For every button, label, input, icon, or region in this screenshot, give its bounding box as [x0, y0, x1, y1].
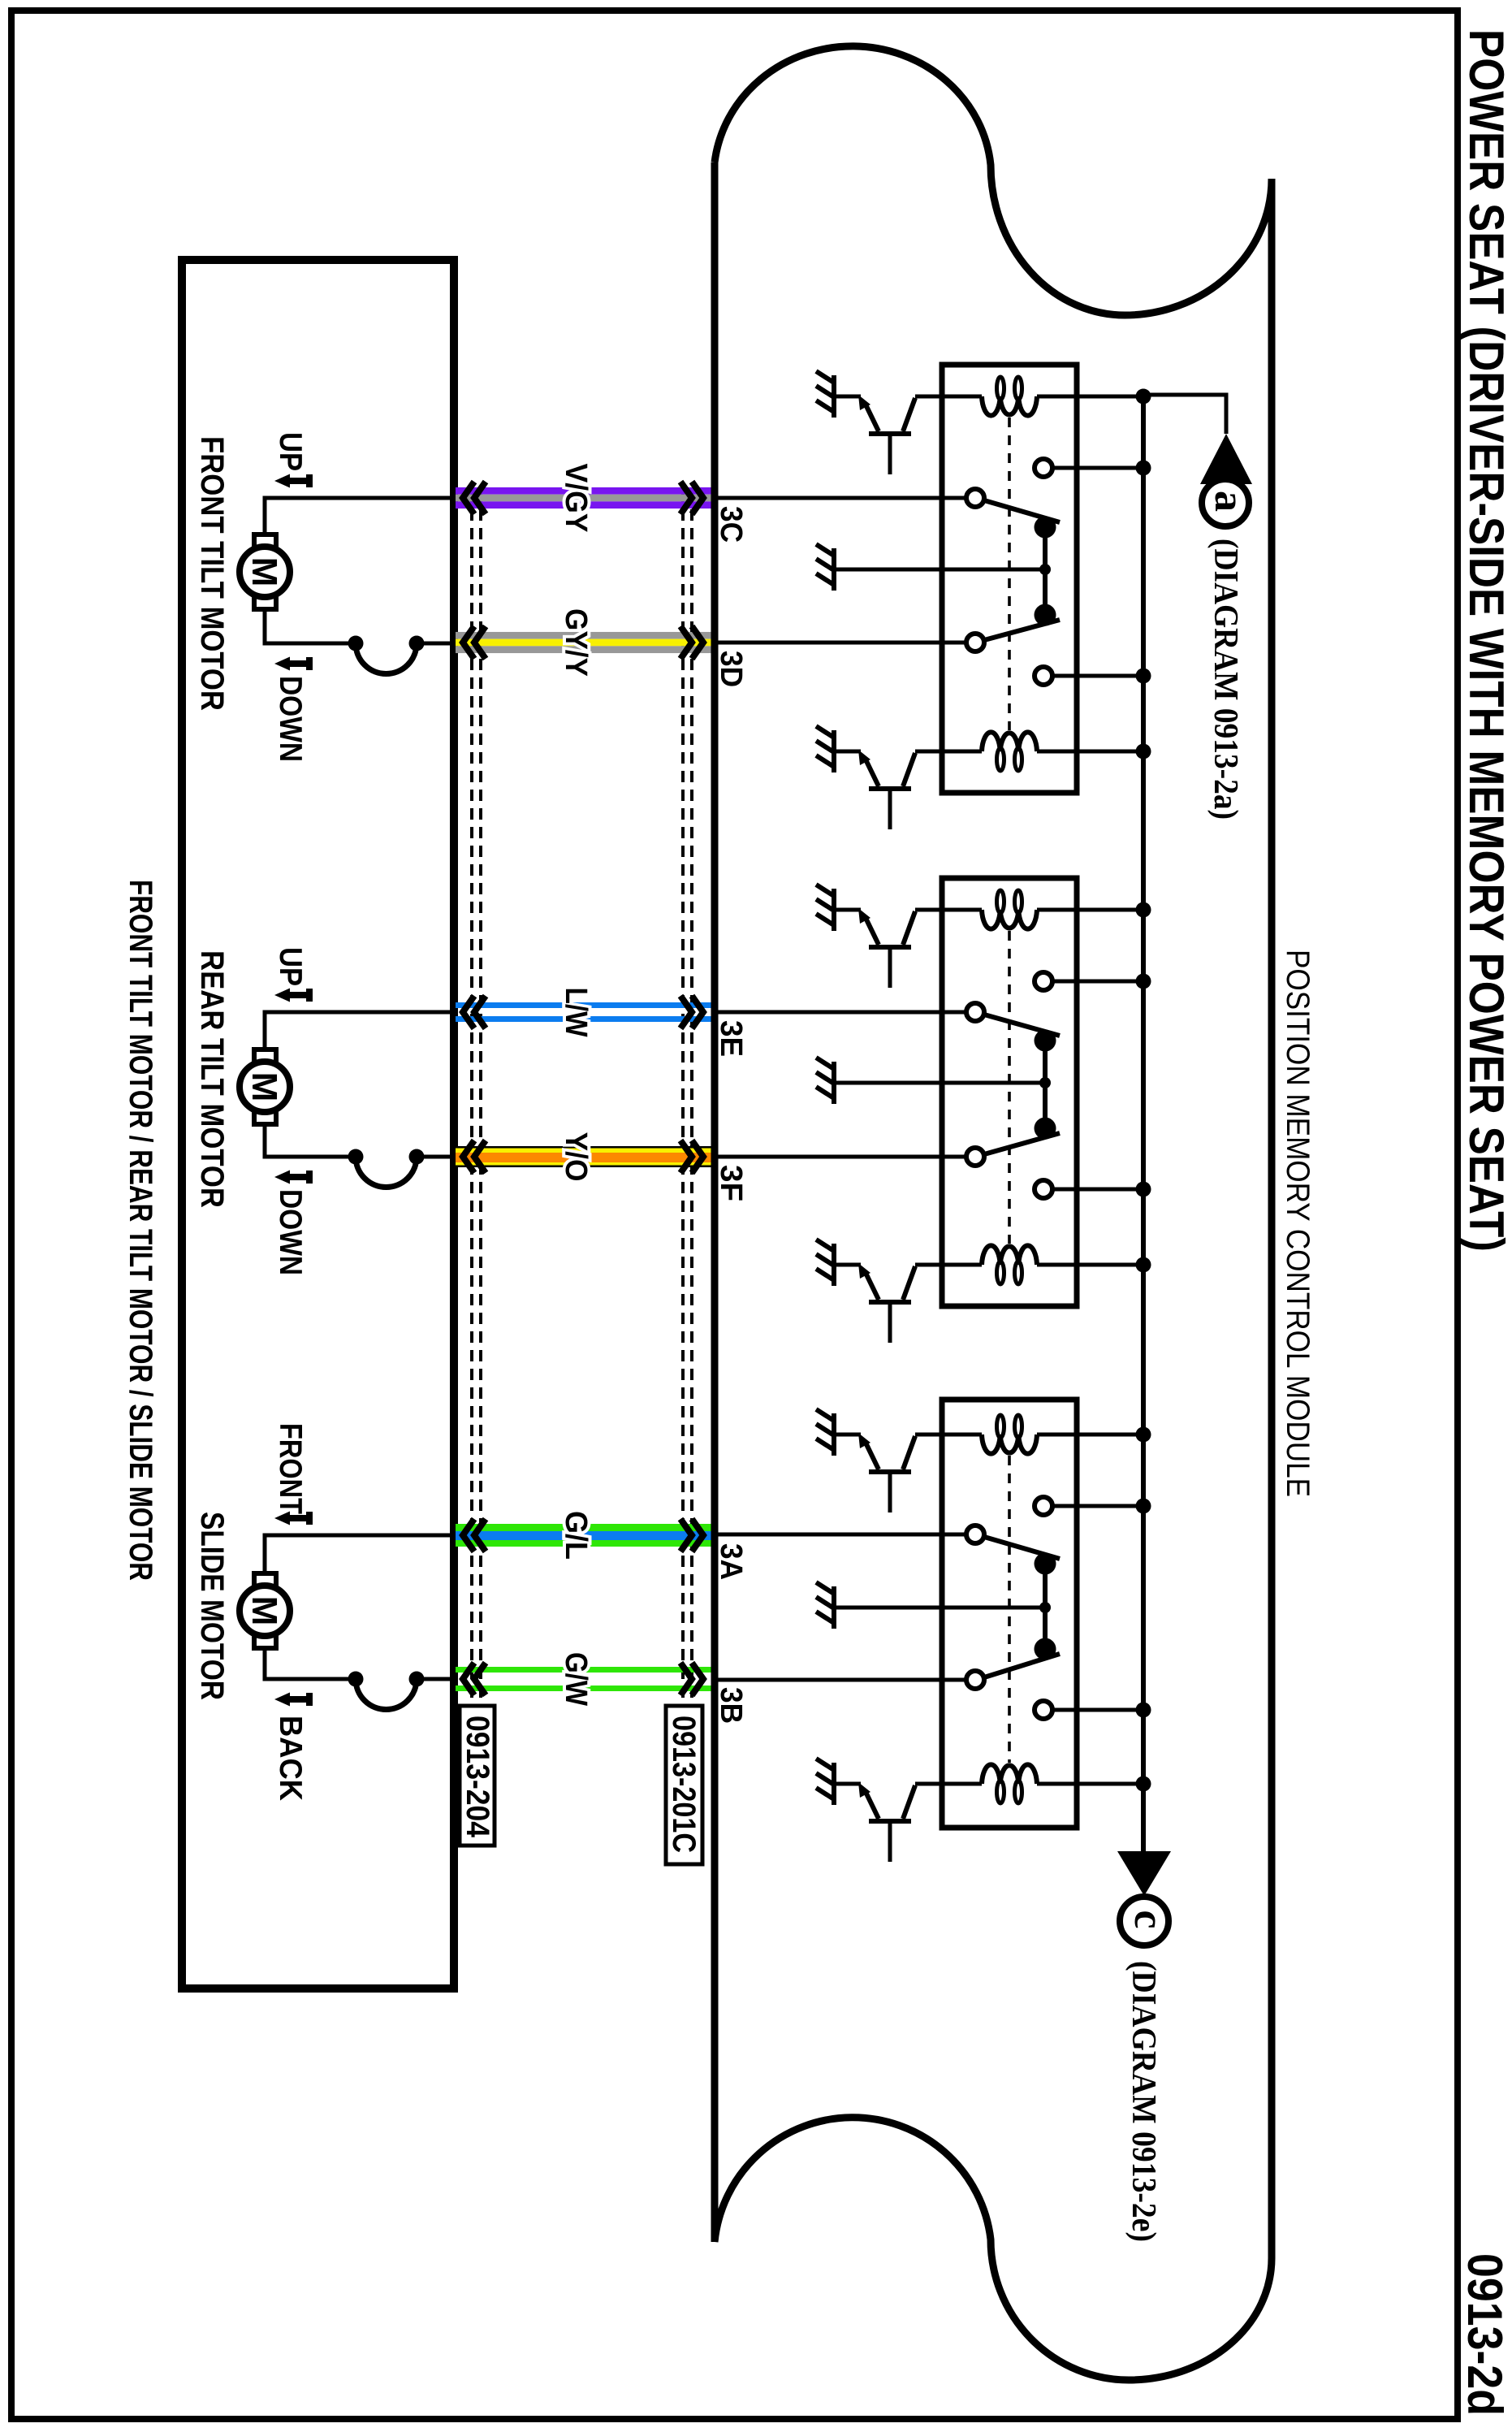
wire collector to coil K1 bottom [915, 750, 982, 754]
motor M3 upper direction arrow [289, 1515, 306, 1521]
junction dot M3 left [348, 1672, 364, 1687]
wire module pin to K2 common 1 [715, 1010, 966, 1015]
motor M1 upper terminal [254, 534, 276, 547]
relay K3 upper NO contact [1035, 1497, 1052, 1515]
connector 0913-201C dashed line 2 [690, 491, 693, 1706]
relay K1 NC contact 2 [1035, 604, 1056, 626]
relay K3 blade 2 [984, 1654, 1060, 1677]
svg-text:M: M [244, 1072, 284, 1102]
relay K1 upper NO contact [1035, 459, 1052, 477]
junction dot bus upper K1 [1136, 461, 1151, 476]
motor assembly box [182, 260, 454, 1988]
junction dot bus upper K2 [1136, 974, 1151, 989]
relay coil K3 lower [982, 1764, 1037, 1784]
wire loop to box edge M2 [417, 1155, 454, 1159]
relay K2 common pole 2 [966, 1148, 984, 1166]
ground K3 center tap [832, 1586, 836, 1629]
wire motor M3 to upper feed [265, 1535, 451, 1575]
motor M2 lower terminal [254, 1111, 276, 1124]
wire K1 upper NO to bus [1052, 466, 1143, 470]
relay K2 common pole 1 [966, 1003, 984, 1021]
relay K3 common pole 1 [966, 1525, 984, 1543]
relay K1 blade 1 [984, 500, 1060, 522]
motor M3 body [240, 1586, 290, 1636]
svg-text:M: M [244, 557, 284, 587]
wire motor M1 lower to loop [265, 608, 356, 643]
relay K2 NC contact 1 [1035, 1030, 1056, 1052]
wire collector to coil K3 top [915, 1433, 982, 1437]
wire coil K3 bottom to bus [1037, 1782, 1143, 1786]
svg-text:FRONT TILT MOTOR: FRONT TILT MOTOR [194, 436, 230, 711]
wire motor M1 to upper feed [265, 498, 451, 536]
relay K2 blade 1 [984, 1015, 1060, 1036]
svg-text:3B: 3B [714, 1687, 748, 1724]
module bottom torn edge [715, 2118, 1272, 2380]
relay K1 NC contact 1 [1035, 517, 1056, 539]
module top torn edge [715, 46, 1272, 315]
wire ground to NC link K2 [834, 1081, 1045, 1085]
relay K2 blade 2 [984, 1133, 1060, 1154]
arrow a head [1200, 434, 1252, 484]
connector label box 0913-201C [666, 1706, 702, 1864]
motor M2 lower direction arrow [289, 1174, 306, 1180]
junction dot M2 right [409, 1149, 425, 1165]
svg-text:L/W: L/W [559, 988, 593, 1037]
svg-text:c: c [1125, 1910, 1172, 1928]
wire motor M2 to upper feed [265, 1012, 451, 1051]
relay K3 NC contact 1 [1035, 1553, 1056, 1575]
svg-text:UP: UP [273, 947, 308, 986]
svg-text:POSITION MEMORY CONTROL MODULE: POSITION MEMORY CONTROL MODULE [1280, 950, 1315, 1497]
junction dot bus / coil K3 bottom [1136, 1776, 1151, 1792]
relay K2 NC contact 2 [1035, 1118, 1056, 1140]
ground K2 center tap [832, 1062, 836, 1104]
ground K1 center tap [832, 548, 836, 591]
relay K2 upper NO contact [1035, 972, 1052, 990]
splice loop arc M3 [356, 1679, 417, 1710]
svg-text:DOWN: DOWN [273, 676, 308, 762]
ground K1 upper transistor emitter [832, 375, 836, 418]
connector 0913-201C dashed line 1 [681, 491, 685, 1706]
wire coil K2 top to bus [1037, 908, 1143, 912]
relay K1 blade 2 [984, 620, 1060, 640]
transistor Q2b [834, 1263, 861, 1267]
svg-text:SLIDE MOTOR: SLIDE MOTOR [194, 1512, 230, 1700]
relay K1 common pole 2 [966, 634, 984, 651]
svg-text:0913-201C: 0913-201C [666, 1716, 702, 1853]
junction dot NC link K1 [1039, 564, 1051, 575]
junction dot M2 left [348, 1149, 364, 1165]
svg-text:3F: 3F [714, 1165, 748, 1201]
relay K2 actuation dashed line [1008, 931, 1011, 1244]
svg-text:UP: UP [273, 432, 308, 471]
relay K2 lower NO contact [1035, 1180, 1052, 1198]
junction dot bus lower K1 [1136, 669, 1151, 684]
relay K3 lower NO contact [1035, 1701, 1052, 1719]
circle c [1120, 1897, 1169, 1945]
ground K2 upper transistor emitter [832, 889, 836, 931]
motor M2 upper direction arrow [289, 992, 306, 998]
circle a [1202, 479, 1249, 526]
wire module pin to K3 common 2 [715, 1678, 966, 1682]
ground K3 upper transistor emitter [832, 1413, 836, 1456]
relay coil K2 lower [982, 1245, 1037, 1265]
wire collector to coil K3 bottom [915, 1782, 982, 1786]
wire K2 lower NO to bus [1052, 1188, 1143, 1192]
wire module pin to K2 common 2 [715, 1155, 966, 1159]
wire coil K1 top to bus [1037, 395, 1143, 399]
junction dot bus / coil K1 bottom [1136, 744, 1151, 759]
svg-text:Y/O: Y/O [559, 1132, 593, 1182]
relay K3 common pole 2 [966, 1671, 984, 1689]
ground K1 lower transistor emitter [832, 730, 836, 772]
svg-text:FRONT TILT MOTOR / REAR TILT M: FRONT TILT MOTOR / REAR TILT MOTOR / SLI… [123, 880, 158, 1581]
transistor Q1a [834, 395, 861, 399]
svg-text:a: a [1206, 491, 1252, 512]
junction dot NC link K2 [1039, 1077, 1051, 1088]
transistor Q1b [834, 750, 861, 754]
junction dot M1 left [348, 636, 364, 651]
svg-text:BACK: BACK [273, 1716, 308, 1801]
svg-text:3D: 3D [714, 651, 748, 687]
wire loop to box edge M1 [417, 642, 454, 646]
relay coil K3 upper [982, 1435, 1037, 1454]
svg-text:V/GY: V/GY [559, 464, 593, 533]
wire motor M2 lower to loop [265, 1123, 356, 1157]
wire NC link K3 [1043, 1564, 1048, 1649]
motor M3 upper terminal [254, 1573, 276, 1586]
module internal bus wire [1141, 395, 1146, 1851]
svg-text:M: M [244, 1596, 284, 1626]
junction dot bus / coil K3 top [1136, 1427, 1151, 1443]
svg-text:POWER SEAT (DRIVER-SIDE WITH M: POWER SEAT (DRIVER-SIDE WITH MEMORY POWE… [1459, 29, 1512, 1252]
wire ground to NC link K1 [834, 568, 1045, 572]
motor M1 body [240, 547, 290, 597]
wire module pin to K3 common 1 [715, 1533, 966, 1537]
ground K2 lower transistor emitter [832, 1244, 836, 1286]
ground K3 lower transistor emitter [832, 1763, 836, 1805]
svg-text:FRONT: FRONT [273, 1423, 308, 1514]
svg-text:G/L: G/L [559, 1511, 593, 1560]
relay K1 box [942, 365, 1077, 793]
junction dot bus / coil K1 top [1136, 389, 1151, 405]
relay K1 lower NO contact [1035, 667, 1052, 685]
module left edge [711, 162, 719, 2242]
wire ground to NC link K3 [834, 1606, 1045, 1610]
wire K3 lower NO to bus [1052, 1708, 1143, 1712]
splice loop arc M1 [356, 643, 417, 674]
wire coil K3 top to bus [1037, 1433, 1143, 1437]
junction dot bus / coil K2 bottom [1136, 1257, 1151, 1273]
motor M1 upper direction arrow [289, 478, 306, 484]
motor M3 lower terminal [254, 1635, 276, 1648]
motor M2 upper terminal [254, 1049, 276, 1062]
wire bus to arrow a [1143, 395, 1226, 434]
junction dot bus upper K3 [1136, 1499, 1151, 1514]
junction dot M1 right [409, 636, 425, 651]
junction dot NC link K3 [1039, 1602, 1051, 1613]
relay K3 NC contact 2 [1035, 1638, 1056, 1660]
motor M1 lower direction arrow [289, 660, 306, 667]
wire module pin to K1 common 1 [715, 496, 966, 500]
svg-text:GY/Y: GY/Y [559, 608, 593, 677]
relay coil K2 upper [982, 910, 1037, 929]
junction dot bus lower K3 [1136, 1703, 1151, 1718]
wire collector to coil K1 top [915, 395, 982, 399]
splice loop arc M2 [356, 1157, 417, 1188]
wire coil K1 bottom to bus [1037, 750, 1143, 754]
relay K1 actuation dashed line [1008, 418, 1011, 730]
svg-text:(DIAGRAM 0913-2a): (DIAGRAM 0913-2a) [1207, 539, 1244, 820]
motor M1 lower terminal [254, 596, 276, 609]
wire collector to coil K2 top [915, 908, 982, 912]
wire collector to coil K2 bottom [915, 1263, 982, 1267]
junction dot bus lower K2 [1136, 1182, 1151, 1197]
relay coil K1 upper [982, 396, 1037, 416]
svg-text:(DIAGRAM 0913-2e): (DIAGRAM 0913-2e) [1125, 1961, 1162, 2242]
svg-text:G/W: G/W [559, 1652, 593, 1706]
motor M3 lower direction arrow [289, 1696, 306, 1703]
relay K3 box [942, 1400, 1077, 1828]
transistor Q2a [834, 908, 861, 912]
motor M2 body [240, 1062, 290, 1112]
junction dot bus / coil K2 top [1136, 902, 1151, 918]
wire module pin to K1 common 2 [715, 641, 966, 645]
svg-text:3E: 3E [714, 1020, 748, 1057]
relay K3 actuation dashed line [1008, 1456, 1011, 1763]
relay K1 common pole 1 [966, 489, 984, 507]
wire motor M3 lower to loop [265, 1647, 356, 1679]
wire K2 upper NO to bus [1052, 980, 1143, 984]
module right edge [1268, 179, 1276, 2258]
transistor Q3b [834, 1782, 861, 1786]
junction dot M3 right [409, 1672, 425, 1687]
relay coil K1 lower [982, 732, 1037, 751]
svg-text:REAR TILT MOTOR: REAR TILT MOTOR [194, 950, 230, 1208]
svg-text:0913-2d: 0913-2d [1458, 2253, 1512, 2416]
svg-text:0913-204: 0913-204 [460, 1716, 495, 1838]
connector 0913-204 dashed line 2 [479, 491, 482, 1706]
wire K3 upper NO to bus [1052, 1504, 1143, 1508]
wire loop to box edge M3 [417, 1677, 454, 1681]
arrow c head [1117, 1851, 1171, 1896]
svg-text:3A: 3A [714, 1543, 748, 1580]
wire NC link K2 [1043, 1041, 1048, 1128]
svg-text:3C: 3C [714, 506, 748, 543]
connector label box 0913-204 [460, 1706, 495, 1846]
wire coil K2 bottom to bus [1037, 1263, 1143, 1267]
relay K3 blade 1 [984, 1537, 1060, 1559]
connector 0913-204 dashed line 1 [470, 491, 473, 1706]
transistor Q3a [834, 1433, 861, 1437]
svg-text:DOWN: DOWN [273, 1189, 308, 1275]
wire NC link K1 [1043, 527, 1048, 615]
wire K1 lower NO to bus [1052, 674, 1143, 678]
relay K2 box [942, 878, 1077, 1306]
